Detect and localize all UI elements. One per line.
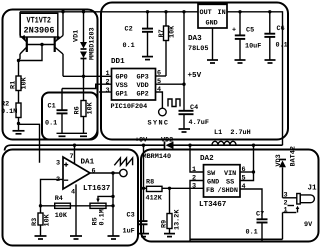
svg-text:IN: IN — [218, 9, 226, 17]
svg-text:R1: R1 — [10, 81, 18, 89]
ground under C6 — [265, 60, 276, 63]
svg-text:DA1: DA1 — [81, 159, 95, 167]
diode VD2 MBRM140 — [143, 137, 174, 162]
icon sync pulse waveform — [168, 99, 180, 107]
svg-text:0.1: 0.1 — [276, 42, 288, 50]
resistor R3 10K — [31, 206, 52, 236]
wire +9V rail (gap between modules) — [5, 145, 165, 150]
resistor R5 0.1M trimmer — [90, 196, 113, 225]
svg-text:4: 4 — [157, 86, 161, 94]
svg-text:10K: 10K — [21, 76, 29, 89]
ground under C2 — [142, 57, 153, 60]
ground under R6 — [80, 135, 87, 137]
svg-text:13.2K: 13.2K — [174, 209, 182, 230]
capacitor C1 0.1 — [45, 89, 68, 134]
wire op-amp pin2 input — [41, 179, 64, 205]
svg-text:412K: 412K — [146, 195, 163, 203]
ground under DA3 — [207, 60, 218, 63]
svg-text:R7: R7 — [158, 29, 166, 37]
svg-text:L1 2.7uH: L1 2.7uH — [214, 129, 251, 137]
node VT2 emitter junction — [61, 10, 64, 13]
resistor R2 0.1M — [1, 91, 21, 124]
node SW branch junction — [188, 144, 191, 147]
svg-text:10K: 10K — [87, 101, 95, 114]
capacitor C6 0.1 — [264, 12, 287, 60]
svg-text:GND: GND — [206, 20, 218, 28]
svg-text:5: 5 — [242, 175, 246, 183]
svg-text:2: 2 — [106, 79, 110, 87]
pin 6 wire GP3 to R7 — [156, 75, 167, 77]
diode VD1 MMBD1203 (dual) — [73, 12, 97, 77]
wire feedback vertical to ground — [112, 173, 114, 236]
svg-text:2N3906: 2N3906 — [24, 26, 55, 36]
svg-text:VIN: VIN — [224, 170, 236, 178]
label frame VT1 VT2 2N3906 — [20, 13, 58, 37]
svg-text:R8: R8 — [146, 179, 154, 187]
svg-text:DA2: DA2 — [200, 154, 214, 163]
svg-text:GP2: GP2 — [137, 91, 149, 99]
wire GP0 net (VT2 collector to DD1 pin1) — [63, 75, 112, 77]
ground under C4 — [179, 129, 191, 132]
svg-text:GP0: GP0 — [116, 74, 128, 82]
svg-text:4: 4 — [71, 189, 75, 197]
ground under C3 — [138, 234, 149, 237]
capacitor C4 4.7uF — [179, 104, 209, 129]
svg-text:MBRM140: MBRM140 — [143, 153, 172, 161]
svg-text:R4: R4 — [55, 195, 63, 203]
svg-text:C1: C1 — [48, 103, 56, 111]
svg-text:C4: C4 — [190, 104, 198, 112]
svg-text:SW: SW — [207, 170, 216, 178]
svg-text:PIC10F204: PIC10F204 — [111, 103, 148, 111]
transistor VT1 (2N3906 left) — [19, 12, 27, 61]
svg-text:10K: 10K — [55, 212, 68, 220]
svg-text:SS: SS — [226, 179, 234, 187]
capacitor C2 0.1 — [123, 12, 154, 57]
wire op-amp supply pin7 — [74, 145, 76, 163]
wire feedback row — [41, 205, 114, 207]
svg-text:1uF: 1uF — [123, 228, 135, 236]
wire op-amp pin4 to ground — [75, 184, 77, 235]
svg-text:DA3: DA3 — [188, 34, 202, 43]
ground under output divider — [108, 236, 120, 239]
node +5V branch junction — [182, 10, 185, 13]
capacitor C7 0.1 — [246, 211, 268, 242]
svg-text:C5: C5 — [246, 27, 254, 35]
node R7 junction — [164, 10, 167, 13]
module box E (boost converter + battery) — [141, 150, 319, 242]
svg-text:DD1: DD1 — [111, 58, 125, 66]
svg-text:10K: 10K — [44, 213, 52, 226]
module box C (MCU + regulator) — [101, 3, 288, 140]
svg-text:10K: 10K — [169, 25, 177, 38]
svg-text:VDD: VDD — [137, 82, 149, 90]
node C3 branch junction — [142, 144, 145, 147]
regulator DA3 78L05 — [188, 4, 227, 53]
node wiper junction — [111, 195, 114, 198]
svg-text:R9: R9 — [161, 220, 169, 228]
svg-text:4: 4 — [242, 183, 246, 191]
svg-text:9V: 9V — [304, 221, 313, 229]
wire J1 pin1 to ground — [282, 213, 284, 240]
node VIN branch junction — [252, 144, 255, 147]
svg-text:FB: FB — [206, 187, 214, 195]
svg-text:6: 6 — [242, 166, 246, 174]
svg-text:R6: R6 — [74, 106, 82, 114]
wire C3 branch vertical — [143, 145, 145, 220]
node C5 junction — [238, 10, 241, 13]
node VIN junction — [252, 170, 255, 173]
svg-text:7: 7 — [70, 153, 74, 161]
ground under C1 — [59, 135, 66, 137]
ground under R2 — [13, 124, 25, 134]
node R2 bottom junction — [17, 122, 20, 125]
svg-text:LT1637: LT1637 — [83, 184, 111, 193]
svg-text:3: 3 — [192, 183, 196, 191]
node VD1 bottom junction — [82, 75, 85, 78]
node R1 top junction — [17, 59, 20, 62]
svg-text:+: + — [232, 27, 236, 35]
resistor R1 10K — [10, 61, 29, 91]
svg-text:/SHDN: /SHDN — [218, 187, 238, 195]
svg-text:GP1: GP1 — [116, 91, 128, 99]
node R8 left junction — [142, 187, 145, 190]
ground under op-amp — [70, 236, 82, 239]
resistor R9 13.2K — [161, 188, 182, 233]
op-amp DA1 LT1637 — [63, 157, 111, 193]
svg-text:+5V: +5V — [188, 72, 202, 80]
pin 3 wire GP1 — [99, 91, 112, 93]
resistor R7 10K — [158, 12, 177, 76]
resistor R4 10K — [55, 195, 71, 220]
svg-text:0.1: 0.1 — [246, 229, 258, 237]
svg-text:78L05: 78L05 — [188, 45, 208, 53]
svg-text:0.1: 0.1 — [45, 120, 57, 128]
svg-text:3: 3 — [56, 160, 60, 168]
capacitor C3 1uF — [123, 212, 148, 236]
svg-text:OUT: OUT — [200, 9, 212, 17]
module box D (op-amp generator) — [3, 150, 139, 246]
node R4/R3 junction — [39, 204, 42, 207]
svg-text:1: 1 — [192, 166, 196, 174]
pin 4 wire /SHDN to C7 — [240, 189, 262, 219]
svg-text:0.1M: 0.1M — [99, 209, 107, 225]
node base tie junction — [40, 43, 43, 46]
svg-text:+9V: +9V — [135, 137, 148, 145]
node R9 top junction — [168, 187, 171, 190]
svg-text:VD1: VD1 — [73, 30, 81, 42]
svg-text:MMBD1203: MMBD1203 — [89, 27, 97, 60]
svg-text:GND: GND — [207, 179, 219, 187]
svg-text:0.1: 0.1 — [123, 42, 135, 50]
node VDD junction — [182, 83, 185, 86]
wire base tie VT1-VT2 — [27, 44, 55, 46]
ground under C5 — [235, 60, 246, 63]
svg-text:VD2: VD2 — [161, 137, 173, 145]
wire op-amp output — [90, 172, 120, 174]
wire IN rail from battery — [227, 12, 283, 145]
IC DA2 LT3467 — [199, 154, 240, 209]
svg-text:BAT42: BAT42 — [290, 146, 298, 166]
svg-text:10uF: 10uF — [245, 43, 261, 51]
node R5 right junction — [111, 204, 114, 207]
svg-text:C3: C3 — [127, 212, 135, 220]
resistor R6 10K — [74, 76, 95, 133]
svg-text:VSS: VSS — [116, 82, 128, 90]
wire DA3 GND — [212, 28, 214, 60]
wire +5V top rail — [20, 11, 198, 13]
svg-text:4.7uF: 4.7uF — [189, 119, 209, 127]
diode VD3 BAT42 — [275, 146, 298, 198]
wire VSS net (DD1 pin2 to C1 top) — [62, 84, 112, 88]
svg-text:C6: C6 — [277, 25, 285, 33]
terminal output — [120, 169, 127, 176]
wire rail VD2 to VD3 — [174, 144, 283, 146]
svg-text:2: 2 — [192, 175, 196, 183]
svg-text:GP3: GP3 — [137, 74, 149, 82]
pin 1 wire SW to rail — [190, 145, 204, 172]
node output junction — [111, 171, 114, 174]
pin 6 wire VIN — [240, 171, 254, 173]
svg-text:VT1VT2: VT1VT2 — [27, 16, 52, 26]
svg-text:0.1M: 0.1M — [1, 108, 17, 116]
node VD1 top junction — [82, 10, 85, 13]
node C2 junction — [146, 10, 149, 13]
ground under R3 — [35, 236, 47, 239]
svg-text:3: 3 — [106, 87, 110, 95]
pin 2 wire GND down — [190, 181, 204, 242]
pin 5 wire VDD to +5V — [156, 83, 185, 85]
inductor L1 2.7uH — [212, 129, 251, 145]
pin 5 wire SS — [240, 145, 254, 180]
ground under R9 — [164, 234, 175, 237]
wire ground rail C1/R6 — [57, 132, 88, 134]
capacitor C5 10uF polarized — [232, 12, 261, 60]
svg-text:1: 1 — [106, 70, 110, 78]
svg-text:SYNC: SYNC — [148, 120, 170, 128]
svg-text:C2: C2 — [125, 26, 133, 34]
connector J1 battery 9V — [283, 185, 318, 230]
resistor R8 412K — [144, 179, 204, 203]
wire VT1 collector to base (diode connection) — [19, 45, 43, 61]
IC DD1 PIC10F204 — [111, 58, 156, 111]
svg-text:6: 6 — [92, 168, 96, 176]
module box B (inner C1/R6 group) — [42, 93, 98, 140]
wire +5V vertical — [183, 12, 185, 110]
svg-text:3: 3 — [284, 192, 288, 200]
node C6 junction — [268, 10, 271, 13]
wire R2 node to op-amp pin3 (crosses down to module D) — [19, 124, 40, 163]
node op-amp supply junction — [73, 144, 76, 147]
svg-text:LT3467: LT3467 — [199, 200, 227, 209]
terminal SYNC — [159, 108, 167, 116]
module box A (transistor sensor) — [3, 10, 98, 140]
svg-text:J1: J1 — [308, 185, 318, 193]
pin 4 wire GP2 to SYNC — [156, 92, 163, 108]
transistor VT2 (2N3906 right) — [55, 12, 63, 77]
svg-text:1: 1 — [284, 207, 288, 215]
wire ground rail module E — [190, 238, 283, 240]
svg-text:R3: R3 — [31, 218, 39, 226]
icon sawtooth waveform — [114, 158, 132, 165]
svg-text:VD3: VD3 — [275, 154, 283, 166]
svg-text:C7: C7 — [256, 211, 264, 219]
